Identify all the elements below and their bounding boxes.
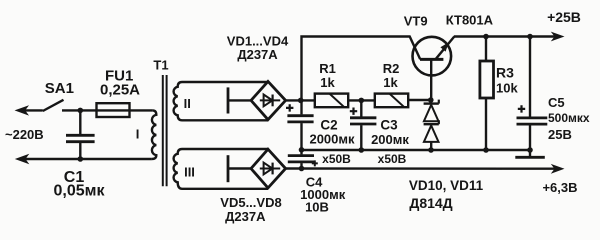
wire <box>25 158 151 160</box>
bridge VD1...VD4 terminal bar <box>227 87 230 113</box>
svg-text:0,05мк: 0,05мк <box>54 182 106 199</box>
svg-text:I: I <box>136 127 140 142</box>
svg-text:х50В: х50В <box>322 152 351 166</box>
transformer T1 winding II <box>174 82 268 120</box>
svg-text:~220В: ~220В <box>5 127 44 142</box>
node C5 top <box>527 34 533 40</box>
wire <box>286 99 315 101</box>
node rail C2 <box>299 147 305 153</box>
node C1 top <box>78 108 84 114</box>
plus C2 <box>286 104 293 111</box>
plus C5 <box>518 105 525 112</box>
common rail <box>302 149 532 152</box>
svg-text:1k: 1k <box>320 75 335 90</box>
svg-text:2000мк: 2000мк <box>309 131 355 146</box>
svg-text:500мкх: 500мкх <box>548 111 590 125</box>
capacitor C5 <box>515 37 547 158</box>
plus C4 <box>312 160 318 166</box>
svg-text:1k: 1k <box>383 75 398 90</box>
svg-text:+6,3В: +6,3В <box>542 180 577 195</box>
transformer core <box>162 75 164 186</box>
wire <box>228 167 252 169</box>
node rail C4 <box>299 166 305 172</box>
node rail C5 <box>527 147 533 153</box>
svg-text:R2: R2 <box>383 61 400 76</box>
zener VD10 <box>424 100 439 122</box>
wire <box>228 99 252 101</box>
resistor R2 <box>375 94 408 108</box>
diode inside VD1...VD4 <box>260 95 280 107</box>
svg-text:10k: 10k <box>496 80 518 95</box>
node rail C3 <box>359 147 365 153</box>
riser wire to collector <box>302 37 421 101</box>
bridge rectifier VD1...VD4 <box>251 81 286 119</box>
svg-text:0,25А: 0,25А <box>100 82 140 99</box>
svg-text:10В: 10В <box>305 199 329 214</box>
svg-text:II: II <box>184 96 191 111</box>
wire <box>348 99 375 101</box>
svg-text:КТ801А: КТ801А <box>446 13 494 28</box>
svg-text:+25В: +25В <box>547 9 581 25</box>
+25V rail <box>454 35 555 37</box>
node rail R3 <box>483 147 489 153</box>
svg-text:SA1: SA1 <box>45 80 74 97</box>
transformer T1 primary winding I <box>152 110 157 159</box>
node rail zener <box>428 147 434 153</box>
svg-text:200мк: 200мк <box>371 132 409 147</box>
svg-text:Т1: Т1 <box>153 58 168 73</box>
switch SA1 blade <box>43 100 64 111</box>
zener VD11 <box>424 120 439 150</box>
svg-text:С2: С2 <box>320 117 337 132</box>
node B <box>359 98 365 104</box>
node R3 top <box>483 34 489 40</box>
node C1 bottom <box>78 156 84 162</box>
resistor R3 <box>480 37 494 151</box>
bridge rectifier VD5...VD8 <box>251 149 286 188</box>
node base <box>428 97 434 103</box>
svg-text:С3: С3 <box>380 117 398 132</box>
wire <box>408 99 431 101</box>
capacitor C2 <box>287 100 313 150</box>
diode inside VD5...VD8 <box>260 163 280 175</box>
wire <box>25 109 43 111</box>
plus C3 <box>350 108 357 115</box>
transformer T1 winding III <box>174 149 268 189</box>
resistor R1 <box>315 94 348 108</box>
transistor VT9 <box>413 37 452 76</box>
svg-text:VD10, VD11: VD10, VD11 <box>409 178 484 193</box>
bridge VD5...VD8 terminal bar <box>227 155 230 182</box>
svg-text:III: III <box>184 165 195 180</box>
capacitor C4 <box>288 150 314 169</box>
svg-text:R1: R1 <box>319 61 336 76</box>
svg-text:25В: 25В <box>548 127 572 142</box>
svg-text:Д237А: Д237А <box>225 209 266 224</box>
svg-text:х50В: х50В <box>378 152 407 166</box>
node A <box>298 98 304 104</box>
fuse FU1 <box>97 103 130 117</box>
svg-text:С5: С5 <box>548 95 565 110</box>
input arrow bottom <box>15 154 29 164</box>
capacitor C1 <box>66 110 95 159</box>
svg-text:R3: R3 <box>496 64 514 80</box>
wire <box>62 109 153 111</box>
svg-text:VD5...VD8: VD5...VD8 <box>220 195 281 210</box>
+6.3V rail <box>286 167 555 170</box>
svg-text:VT9: VT9 <box>404 13 428 28</box>
svg-text:Д814Д: Д814Д <box>409 195 452 211</box>
svg-text:Д237А: Д237А <box>237 47 278 62</box>
input arrow top ~220V <box>15 105 30 115</box>
capacitor C3 <box>350 100 376 150</box>
